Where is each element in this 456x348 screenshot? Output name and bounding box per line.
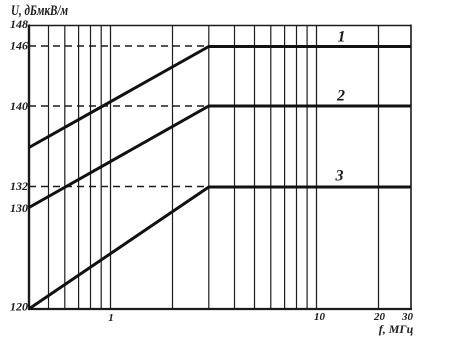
vertical gridline f=0.5: [48, 26, 50, 310]
vertical gridline f=0.7: [78, 26, 80, 310]
svg-text:132: 132: [10, 179, 28, 193]
dashed level line 140 dB: [29, 105, 209, 107]
top border (148 dB): [28, 25, 412, 27]
svg-text:146: 146: [10, 39, 28, 53]
vertical gridline f=1: [110, 26, 112, 310]
svg-text:1: 1: [108, 312, 114, 324]
svg-text:140: 140: [10, 99, 28, 113]
svg-text:3: 3: [335, 168, 344, 185]
x-axis (bottom border, 120 dB): [28, 308, 412, 310]
vertical gridline f=6: [270, 26, 272, 310]
right border (f=30): [410, 25, 412, 311]
vertical gridline f=8: [296, 26, 298, 310]
svg-text:120: 120: [10, 300, 28, 314]
y-axis (left border, f=0.4): [28, 25, 30, 311]
vertical gridline f=0.6: [64, 26, 66, 310]
svg-text:f, МГц: f, МГц: [379, 322, 414, 336]
vertical gridline f=0.9: [100, 26, 102, 310]
dashed level line 132 dB: [29, 186, 209, 188]
svg-text:148: 148: [10, 17, 28, 31]
svg-text:1: 1: [338, 29, 346, 46]
vertical gridline f=20: [378, 26, 380, 310]
svg-text:2: 2: [336, 88, 345, 105]
vertical gridline f=4: [234, 26, 236, 310]
vertical gridline f=0.8: [90, 26, 92, 310]
curve 2 (limit line, plateau 140 dB): [29, 106, 411, 208]
vertical gridline f=10: [316, 26, 318, 310]
curve 1 (limit line, plateau 146 dB): [29, 47, 411, 148]
curve 3 (limit line, plateau 132 dB): [30, 187, 412, 309]
svg-text:10: 10: [314, 311, 326, 323]
vertical gridline f=2: [172, 26, 174, 310]
vertical gridline f=9: [306, 26, 308, 310]
vertical gridline f=5: [254, 26, 256, 310]
dashed level line 146 dB: [29, 45, 209, 47]
vertical gridline f=3: [208, 26, 210, 310]
svg-text:130: 130: [10, 201, 28, 215]
vertical gridline f=7: [284, 26, 286, 310]
